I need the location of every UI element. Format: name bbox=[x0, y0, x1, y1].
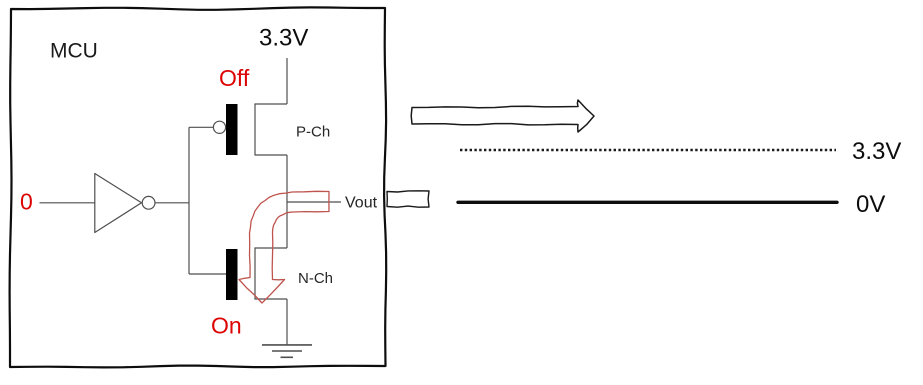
output pin rectangle bbox=[387, 191, 429, 207]
transistor Q1 P-Ch gate plate bbox=[226, 104, 238, 155]
NMOS drain stub wire bbox=[255, 248, 287, 299]
transition arrow (big hollow) bbox=[411, 100, 594, 132]
wire input to inverter bbox=[40, 202, 95, 204]
0V level solid line bbox=[458, 201, 837, 204]
svg-text:On: On bbox=[211, 313, 242, 339]
transistor Q2 N-Ch gate plate bbox=[226, 249, 238, 300]
3.3V level dotted line bbox=[460, 149, 836, 152]
wire Vout node bbox=[287, 201, 341, 203]
svg-text:3.3V: 3.3V bbox=[259, 25, 308, 52]
transistor Q1 gate bubble bbox=[213, 121, 225, 133]
svg-text:N-Ch: N-Ch bbox=[298, 270, 333, 287]
svg-text:0: 0 bbox=[20, 189, 33, 215]
svg-text:3.3V: 3.3V bbox=[852, 138, 901, 165]
svg-text:0V: 0V bbox=[856, 191, 885, 218]
svg-text:Vout: Vout bbox=[345, 195, 378, 212]
svg-text:P-Ch: P-Ch bbox=[296, 124, 330, 141]
wire NMOS source to ground bbox=[286, 299, 288, 345]
inverter U1 output bubble bbox=[142, 196, 155, 209]
svg-text:MCU: MCU bbox=[50, 40, 98, 63]
wire NMOS gate bbox=[189, 273, 226, 275]
current path arrow (red, Vout to ground through N-Ch) bbox=[239, 191, 329, 303]
PMOS source stub wire bbox=[255, 104, 287, 155]
wire 3.3V to PMOS source bbox=[286, 58, 288, 104]
inverter U1 triangle bbox=[95, 174, 142, 233]
wire inverter output to gate bus bbox=[155, 202, 189, 204]
wire PMOS drain to NMOS drain (output rail) bbox=[286, 155, 288, 248]
wire PMOS gate to gate bus bbox=[189, 126, 213, 128]
svg-text:Off: Off bbox=[219, 65, 250, 91]
ground symbol bbox=[262, 345, 312, 357]
wire gate bus vertical bbox=[188, 127, 190, 274]
MCU boundary box bbox=[10, 7, 387, 367]
